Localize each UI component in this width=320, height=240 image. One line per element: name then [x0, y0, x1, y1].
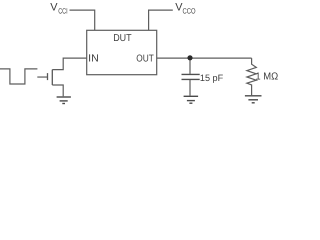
svg-text:15 pF: 15 pF — [200, 73, 224, 83]
svg-text:CCI: CCI — [58, 6, 67, 15]
svg-text:V: V — [50, 2, 58, 14]
svg-text:CCO: CCO — [183, 6, 196, 15]
svg-text:DUT: DUT — [113, 33, 131, 44]
svg-text:1 MΩ: 1 MΩ — [255, 71, 278, 82]
svg-text:OUT: OUT — [136, 54, 154, 65]
svg-text:IN: IN — [88, 54, 99, 65]
